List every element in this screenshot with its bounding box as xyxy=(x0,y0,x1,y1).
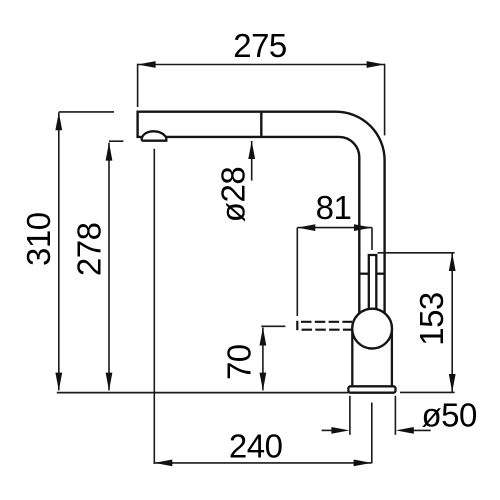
svg-text:70: 70 xyxy=(221,344,258,380)
arrow 275 right xyxy=(367,61,385,68)
arrow o28 up xyxy=(248,141,255,159)
ball joint xyxy=(352,309,392,349)
joint tick left xyxy=(360,273,368,275)
dim 153 ext bottom xyxy=(400,391,455,393)
dim 153 line xyxy=(451,253,453,392)
svg-text:153: 153 xyxy=(413,292,450,346)
arrow 240 right xyxy=(354,460,372,467)
dim 275 ext right xyxy=(384,64,386,136)
dim 275 ext left xyxy=(137,64,139,107)
svg-text:310: 310 xyxy=(20,212,57,266)
dimension graphics xyxy=(57,64,455,464)
dashed hose top xyxy=(301,321,352,323)
dim o28 leader xyxy=(251,141,253,181)
arrow 310 up xyxy=(55,112,62,130)
dim o50 arrow tail left xyxy=(322,429,333,431)
svg-text:81: 81 xyxy=(316,189,352,226)
dim 153 ext top xyxy=(378,252,455,254)
hidden hose dashed lines xyxy=(297,321,352,330)
arrow o50 inward left xyxy=(396,427,414,434)
dim o50 ext right xyxy=(394,396,396,435)
svg-text:ø50: ø50 xyxy=(422,397,478,434)
svg-text:278: 278 xyxy=(71,223,108,277)
dim 275 line xyxy=(138,64,385,66)
joint tick right xyxy=(376,273,384,275)
arrowheads xyxy=(55,61,455,466)
dim 240 ext right xyxy=(371,403,373,464)
svg-text:275: 275 xyxy=(233,27,287,64)
arrow 70 down xyxy=(260,373,267,391)
arrow 240 left xyxy=(154,460,172,467)
dashed vertical stub xyxy=(296,321,298,330)
dim 81 line xyxy=(297,227,372,229)
base flange xyxy=(348,386,395,392)
arrow 275 left xyxy=(138,61,156,68)
arrow 81 right xyxy=(354,224,372,231)
svg-text:240: 240 xyxy=(229,428,283,465)
body column xyxy=(352,329,392,387)
aerator dome xyxy=(142,131,167,140)
dim 278 line xyxy=(108,143,110,391)
mounting baseline xyxy=(57,392,349,394)
dim 310 ext top xyxy=(59,111,114,113)
dim 310 line xyxy=(58,112,60,390)
arrow 70 up xyxy=(260,328,267,346)
faucet outline xyxy=(138,112,396,393)
dim o50 arrow tail right xyxy=(412,429,431,431)
arrow 278 down xyxy=(106,373,113,391)
arrow 153 down xyxy=(449,374,456,392)
arrow 310 down xyxy=(55,373,62,391)
dim 278 tick xyxy=(109,140,123,142)
arrow 278 up xyxy=(106,143,113,161)
svg-text:ø28: ø28 xyxy=(214,167,251,222)
dashed hose bottom xyxy=(302,329,353,331)
lever rod xyxy=(369,255,377,311)
arrow 81 left xyxy=(297,224,315,231)
dim 240 ext left xyxy=(153,149,155,464)
dim 70 line xyxy=(262,328,264,391)
dim o50 ext left xyxy=(349,396,351,435)
dim 81 ext left xyxy=(296,228,298,316)
arrow o50 inward right xyxy=(331,427,349,434)
dim 81 ext right xyxy=(371,228,373,250)
dim 70 tick xyxy=(261,325,285,327)
spray head separator xyxy=(260,113,262,136)
spout + riser tube outline xyxy=(138,112,385,314)
dim 240 line xyxy=(154,462,371,464)
arrow 153 up xyxy=(449,253,456,271)
